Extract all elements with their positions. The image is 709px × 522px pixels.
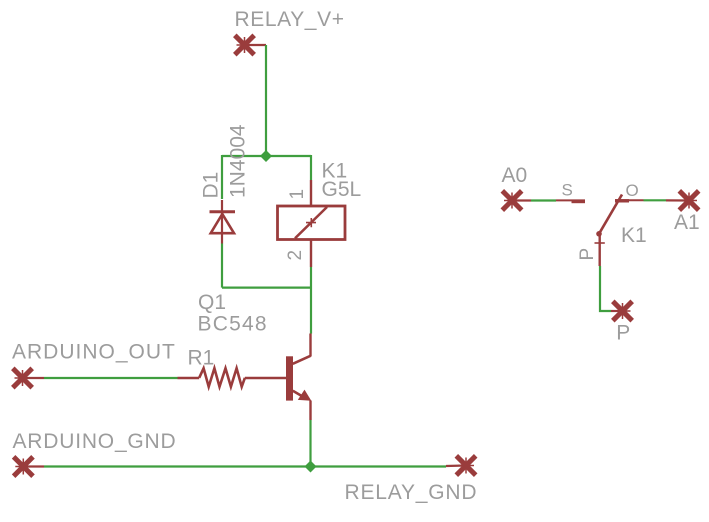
relay contact K1 S terminal xyxy=(556,200,585,201)
wire stub ARDUINO_OUT xyxy=(23,377,45,379)
svg-text:S: S xyxy=(562,181,573,200)
svg-text:ARDUINO_GND: ARDUINO_GND xyxy=(13,430,177,453)
svg-text:O: O xyxy=(626,181,639,200)
wire stub ARDUINO_GND xyxy=(23,465,44,467)
wire node top horizontal xyxy=(222,155,311,157)
wire P down xyxy=(600,266,611,311)
svg-text:D1: D1 xyxy=(200,172,223,199)
wire RELAY_V+ vertical xyxy=(265,45,267,156)
svg-text:RELAY_GND: RELAY_GND xyxy=(345,481,478,504)
junction at 266,156 xyxy=(260,150,272,162)
svg-text:G5L: G5L xyxy=(322,178,362,201)
pin A1 xyxy=(679,191,698,210)
wire diode anode down xyxy=(221,244,223,288)
svg-text:BC548: BC548 xyxy=(198,313,268,336)
svg-text:ARDUINO_OUT: ARDUINO_OUT xyxy=(12,341,176,364)
pin ARDUINO_OUT xyxy=(13,368,32,387)
svg-text:P: P xyxy=(616,322,630,345)
svg-text:A1: A1 xyxy=(674,211,700,234)
svg-text:1: 1 xyxy=(287,189,308,200)
svg-text:P: P xyxy=(577,248,598,261)
relay contact K1 P terminal xyxy=(595,234,605,266)
pin A0 xyxy=(502,191,521,210)
svg-text:Q1: Q1 xyxy=(198,291,226,314)
pin P xyxy=(613,301,632,320)
relay coil K1 xyxy=(278,180,346,267)
wire ARDUINO_GND / RELAY_GND xyxy=(44,465,446,467)
wire ARDUINO_OUT xyxy=(44,377,178,379)
svg-text:2: 2 xyxy=(285,250,306,261)
svg-text:1N4004: 1N4004 xyxy=(227,124,250,198)
wire to coil pin 1 xyxy=(310,155,312,180)
wire to diode cathode xyxy=(221,155,223,199)
wire bottom horizontal to collector node xyxy=(222,287,311,289)
wire stub A0 xyxy=(512,199,531,201)
svg-text:K1: K1 xyxy=(621,224,647,247)
relay contact K1 arm and O terminal xyxy=(596,195,643,237)
wire stub RELAY_GND xyxy=(446,464,466,467)
wire stub A1 xyxy=(666,199,689,201)
svg-text:A0: A0 xyxy=(502,164,528,187)
svg-text:R1: R1 xyxy=(188,347,215,370)
transistor Q1 xyxy=(286,334,311,421)
pin ARDUINO_GND xyxy=(14,457,33,476)
wire A0 xyxy=(531,199,556,201)
wire stub P xyxy=(611,310,623,312)
pin RELAY_V+ xyxy=(235,35,254,54)
resistor R1 xyxy=(178,368,287,386)
wire stub RELAY_V+ xyxy=(245,44,267,46)
wire O to A1 xyxy=(644,199,667,201)
svg-text:RELAY_V+: RELAY_V+ xyxy=(235,8,345,31)
pin RELAY_GND xyxy=(456,456,475,475)
wire emitter to gnd xyxy=(309,420,311,467)
diode D1 xyxy=(210,200,236,244)
junction at 310.5,466.5 xyxy=(305,461,317,473)
wire coil pin2 to collector xyxy=(310,267,312,334)
